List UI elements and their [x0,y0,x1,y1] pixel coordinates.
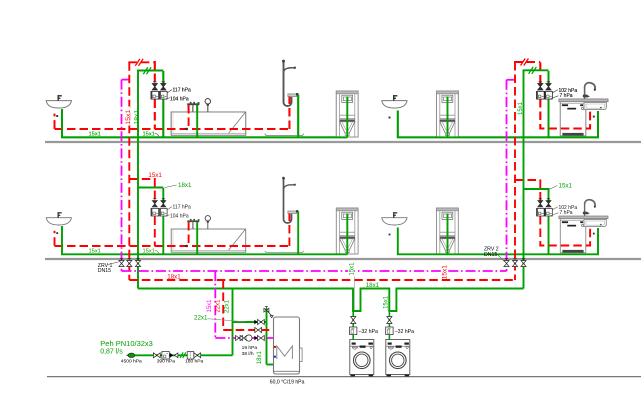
svg-text:18x1: 18x1 [133,110,140,125]
svg-text:15x1: 15x1 [148,172,162,179]
svg-text:DN15: DN15 [98,268,111,274]
svg-text:15x1: 15x1 [125,110,132,125]
svg-text:60,0 °C/19 hPa: 60,0 °C/19 hPa [270,380,305,386]
svg-text:18x1: 18x1 [178,182,192,189]
svg-text:390 hPa: 390 hPa [157,359,176,365]
svg-text:Peh PN10/32x3: Peh PN10/32x3 [100,339,153,348]
svg-text:–32 hPa: –32 hPa [395,329,414,335]
svg-text:–32 hPa: –32 hPa [359,329,378,335]
svg-text:15x1: 15x1 [441,265,448,279]
svg-text:4500 hPa: 4500 hPa [121,359,142,365]
svg-text:18x1: 18x1 [167,273,181,280]
svg-text:180 hPa: 180 hPa [185,359,204,365]
svg-text:18x1: 18x1 [257,351,263,365]
svg-text:15x1: 15x1 [559,183,573,190]
svg-text:18x1: 18x1 [366,282,380,289]
svg-text:15x1: 15x1 [383,295,389,309]
svg-text:38 l/h: 38 l/h [242,351,254,357]
svg-text:22x1: 22x1 [225,299,231,313]
svg-text:22x1: 22x1 [215,299,221,313]
svg-text:15x1: 15x1 [518,101,524,115]
svg-text:15x1: 15x1 [207,299,213,313]
svg-text:22x1: 22x1 [194,315,208,322]
svg-text:15x1: 15x1 [349,262,355,276]
svg-text:0,87 l/s: 0,87 l/s [100,349,123,356]
svg-text:19 hPa: 19 hPa [242,345,258,351]
